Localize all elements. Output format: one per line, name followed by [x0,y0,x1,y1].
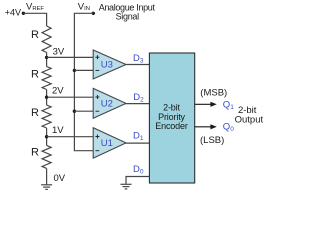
op-amp U3 comparator [93,50,126,79]
node VREF input terminal [22,12,25,15]
wire R2 to 2V node [46,90,48,106]
op-amp U2 comparator [93,88,126,118]
wire R3 to 1V node [46,128,48,145]
wire Q1 output arrow [195,102,217,107]
wire R4 to ground [46,168,48,184]
svg-text:0V: 0V [54,173,66,184]
svg-text:2V: 2V [52,86,64,97]
svg-text:1V: 1V [52,125,64,136]
svg-text:R: R [31,147,39,159]
resistor R1 [42,26,51,53]
svg-text:R: R [31,29,39,41]
wire U1 output to encoder D1 [125,142,149,144]
resistor R4 [42,145,51,168]
node 1V junction [45,135,48,138]
wire encoder D0 to ground [126,177,149,185]
wire Q0 output arrow [195,124,217,129]
ground symbol (ladder) [41,185,52,190]
resistor R3 [42,105,51,128]
svg-text:R: R [31,107,39,119]
wire VIN to U3 minus input [74,69,93,71]
wire R1 to 3V node [46,53,48,67]
svg-text:R: R [31,69,39,81]
node 3V junction [45,56,48,59]
node VIN to U3 minus junction [73,69,76,72]
wire VIN bus [74,13,93,150]
label VIN [78,1,90,12]
op-amp U1 comparator [93,128,126,158]
svg-text:Signal: Signal [116,12,140,22]
svg-text:(LSB): (LSB) [200,135,224,146]
wire 2V tap to U2 plus input [47,96,94,98]
svg-text:3V: 3V [53,47,65,58]
svg-text:(MSB): (MSB) [200,87,227,98]
label VREF [26,1,44,12]
encoder U4 2-bit priority encoder [149,53,194,183]
wire VREF terminal to ladder top [23,13,46,26]
wire U2 output to encoder D2 [125,103,149,105]
svg-text:U3: U3 [101,60,113,71]
ground symbol (D0) [121,184,132,189]
svg-text:Encoder: Encoder [155,121,188,131]
svg-text:+4V: +4V [5,8,21,18]
wire VIN to U2 minus input [74,110,93,112]
svg-text:U2: U2 [101,99,113,110]
node VIN input terminal [92,12,95,15]
label Analogue Input Signal [99,3,156,22]
resistor R2 [42,67,51,90]
wire U3 output to encoder D3 [125,64,149,66]
svg-text:U1: U1 [101,138,113,149]
wire 1V tap to U1 plus input [47,136,94,138]
label 2-bit Output [235,105,264,125]
svg-text:Output: Output [235,115,264,126]
node 2V junction [45,96,48,99]
node VIN to U2 minus junction [73,110,76,113]
wire 3V tap to U3 plus input [47,56,94,58]
